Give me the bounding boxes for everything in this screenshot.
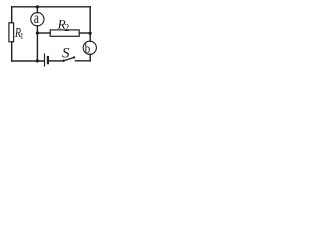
junction node M (36, 31, 39, 34)
wire left lower (11, 42, 13, 61)
junction right node (89, 32, 92, 35)
wire bottom left (12, 60, 44, 62)
battery long plate (44, 54, 46, 66)
wire bottom right (75, 60, 90, 62)
voltmeter b body (83, 41, 96, 54)
wire top (12, 6, 91, 8)
wire right lower (89, 54, 91, 61)
battery short plate (47, 57, 49, 63)
resistor R1 (9, 23, 14, 42)
switch S lever (64, 57, 75, 60)
svg-text:2: 2 (64, 23, 69, 34)
svg-text:b: b (85, 42, 91, 57)
resistor R2 (50, 30, 79, 36)
switch tip terminal (73, 56, 75, 58)
wire left upper (11, 7, 13, 23)
junction top node (36, 5, 39, 8)
junction bottom node (36, 59, 39, 62)
wire bottom mid (49, 60, 63, 62)
svg-text:a: a (34, 10, 39, 27)
svg-text:1: 1 (20, 32, 24, 41)
svg-text:S: S (62, 46, 70, 62)
wire R2 right lead (79, 32, 90, 34)
wire branch ammeter top (36, 7, 38, 13)
wire branch ammeter bottom (36, 26, 38, 61)
ammeter a body (31, 13, 44, 26)
wire R2 left lead (37, 32, 50, 34)
wire right mid (89, 7, 91, 42)
switch left terminal (62, 60, 64, 62)
